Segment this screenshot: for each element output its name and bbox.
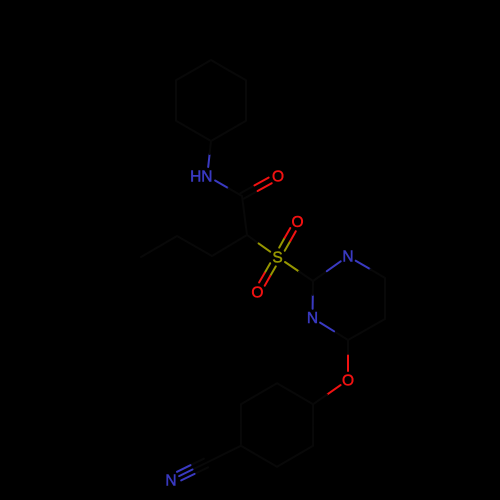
bond pyrimidine C5-C4 [348, 319, 385, 340]
bond C#N nitrile [177, 459, 208, 481]
bond pyrimidine C6-C5 [384, 278, 386, 319]
bond pyrimidine C2-N1 [313, 261, 341, 281]
bond pyrimidine N1-C6 [356, 261, 385, 278]
bond amide N-C [215, 181, 242, 197]
bond pyrimidine N3-C2 [312, 281, 314, 309]
bond S-C2 [285, 262, 313, 281]
svg-text:O: O [342, 372, 354, 389]
bond pyrimidine C4-N3 [320, 323, 348, 340]
bond phenyl C3-C4 [176, 60, 211, 80]
bond O-phenylene [313, 385, 341, 404]
bond phenyl C4-C5 [211, 60, 246, 80]
bond phenyl C5-C6 [245, 80, 247, 121]
bond benzene C1-C2 [277, 383, 313, 404]
bond benzene C4-C5 [241, 446, 277, 467]
svg-text:N: N [307, 310, 318, 327]
bond S=O upper [279, 228, 296, 251]
bond benzene C5-C6 [277, 446, 313, 467]
svg-text:O: O [272, 168, 284, 185]
bond propyl 1 [212, 235, 247, 256]
bond benzene C2-C3 [241, 383, 277, 404]
bond benzene C6-C1 [312, 404, 314, 446]
bond C-Calpha [242, 196, 247, 235]
bond S=O lower [259, 263, 276, 286]
svg-text:N: N [342, 249, 353, 266]
bond Calpha-S [247, 235, 270, 252]
svg-text:S: S [272, 249, 282, 266]
bond N-phenyl [208, 141, 211, 167]
bond C4-O ether [347, 340, 349, 371]
bond amide C=O [240, 178, 271, 199]
bond phenyl C2-C3 [175, 80, 177, 121]
bond C-nitrile [206, 446, 241, 463]
svg-text:N: N [165, 472, 176, 489]
bond phenyl C6-C1 [211, 121, 246, 141]
svg-text:O: O [251, 284, 263, 301]
bond benzene C3-C4 [240, 404, 242, 446]
bond phenyl C1-C2 [176, 121, 211, 141]
bond propyl 3 [141, 236, 177, 257]
svg-text:HN: HN [190, 168, 212, 185]
svg-text:O: O [291, 214, 303, 231]
bond propyl 2 [177, 236, 212, 256]
